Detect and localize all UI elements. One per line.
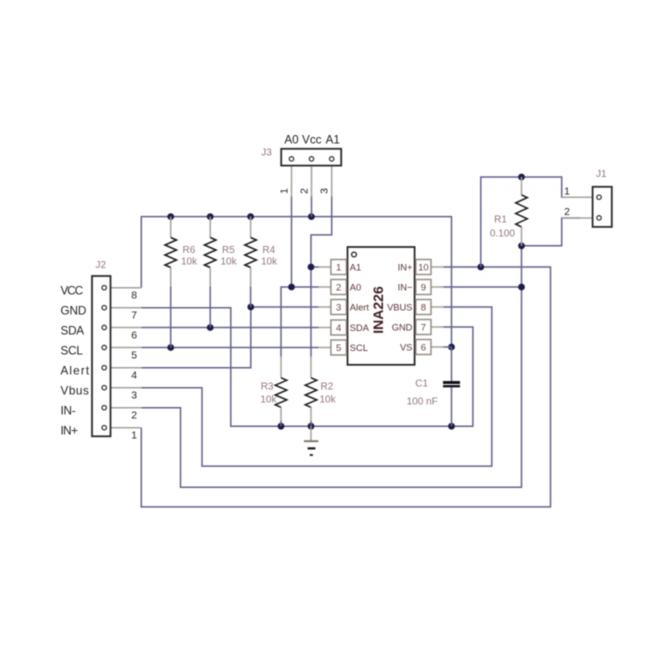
junction R1 bottom bbox=[518, 242, 525, 249]
svg-text:10k: 10k bbox=[261, 257, 278, 268]
pin numbers 10-6 bbox=[418, 262, 429, 353]
junction GND/R2/ground symbol bbox=[308, 423, 315, 430]
op-amp U1 pin1 indicator circle bbox=[352, 252, 357, 257]
ground bbox=[304, 426, 318, 455]
wire IN- net from IC pin9 bbox=[444, 286, 522, 288]
label J2 signal names bbox=[61, 284, 90, 437]
svg-text:7: 7 bbox=[421, 322, 426, 333]
wire R4 bottom to Alert bbox=[250, 286, 252, 307]
connector J3 body bbox=[281, 149, 341, 166]
svg-text:10k: 10k bbox=[260, 395, 277, 406]
svg-text:A1: A1 bbox=[326, 133, 340, 146]
wire VS pin6 to VCC bbox=[444, 346, 452, 348]
svg-text:Alert: Alert bbox=[61, 364, 90, 377]
resistor R4 bbox=[245, 217, 257, 287]
svg-text:VS: VS bbox=[400, 343, 412, 353]
junction VCC/R5 bbox=[207, 213, 214, 220]
svg-text:2: 2 bbox=[564, 207, 570, 218]
wire Alert to IC pin3 bbox=[251, 306, 319, 308]
svg-text:0.100: 0.100 bbox=[490, 229, 515, 240]
junction GND/C1 bbox=[448, 423, 455, 430]
svg-text:SCL: SCL bbox=[61, 344, 84, 357]
svg-text:A0: A0 bbox=[284, 133, 299, 146]
svg-text:2: 2 bbox=[131, 411, 137, 422]
svg-text:IN-: IN- bbox=[61, 404, 76, 417]
svg-text:R1: R1 bbox=[494, 215, 507, 226]
connector J3 pin circles bbox=[289, 157, 334, 161]
svg-text:5: 5 bbox=[336, 343, 341, 354]
svg-text:5: 5 bbox=[131, 351, 137, 362]
svg-text:VCC: VCC bbox=[61, 284, 84, 297]
wire R5 bottom to SDA bbox=[209, 286, 211, 327]
svg-text:SDA: SDA bbox=[61, 324, 85, 337]
svg-text:3: 3 bbox=[131, 391, 137, 402]
svg-text:7: 7 bbox=[131, 311, 137, 322]
wire IN+ net from IC pin10 bbox=[141, 267, 550, 507]
svg-text:R4: R4 bbox=[262, 245, 275, 256]
svg-text:IN−: IN− bbox=[398, 283, 413, 293]
wire C1 bottom lead bbox=[451, 388, 453, 427]
svg-text:1: 1 bbox=[564, 186, 570, 197]
svg-text:J3: J3 bbox=[261, 148, 272, 159]
svg-text:SCL: SCL bbox=[350, 343, 368, 353]
resistor R6 bbox=[165, 217, 177, 287]
wire A1 to IC pin1 bbox=[311, 266, 319, 268]
wire A1 from J3 pin3 bbox=[311, 197, 332, 268]
junction IN+/R1 branch bbox=[477, 264, 484, 271]
svg-text:1: 1 bbox=[280, 188, 291, 194]
wire R2 bottom to GND rail bbox=[310, 421, 312, 426]
svg-text:10k: 10k bbox=[181, 257, 198, 268]
svg-text:6: 6 bbox=[131, 331, 137, 342]
svg-text:GND: GND bbox=[392, 323, 413, 333]
connector J1 pin circles bbox=[597, 195, 601, 220]
svg-text:1: 1 bbox=[336, 262, 341, 273]
connector J2 body bbox=[92, 276, 111, 436]
svg-text:J2: J2 bbox=[96, 260, 107, 271]
connector J2 pin stubs bbox=[111, 288, 142, 428]
svg-text:100 nF: 100 nF bbox=[407, 396, 438, 407]
junction SDA/R5 bbox=[207, 324, 214, 331]
svg-text:2: 2 bbox=[300, 188, 311, 194]
wire VBUS net from IC pin8 bbox=[141, 307, 492, 466]
wire A0 to IC pin2 bbox=[292, 286, 319, 288]
svg-text:Vbus: Vbus bbox=[61, 384, 89, 397]
wire GND from J2 pin7 bbox=[141, 308, 473, 427]
connector J1 pin stubs bbox=[562, 197, 593, 218]
svg-text:INA226: INA226 bbox=[370, 286, 386, 334]
pin numbers 1-5 bbox=[336, 262, 341, 354]
svg-text:8: 8 bbox=[421, 302, 426, 313]
connector J1 body bbox=[593, 187, 612, 227]
junction A0 node bbox=[288, 284, 295, 291]
wire R1 bottom to J1 pin2 bbox=[522, 218, 581, 246]
junction Alert/R4 bbox=[247, 304, 254, 311]
svg-text:4: 4 bbox=[336, 323, 341, 334]
svg-text:10k: 10k bbox=[320, 395, 337, 406]
wire R6 bottom to SCL bbox=[170, 286, 172, 347]
junction GND/R3 bbox=[278, 423, 285, 430]
op-amp U1 left pin boxes bbox=[331, 260, 347, 356]
wire IN+ branch up to R1 top bbox=[481, 177, 522, 267]
svg-text:R5: R5 bbox=[222, 245, 235, 256]
connector J3 pin stubs bbox=[292, 166, 332, 197]
svg-text:9: 9 bbox=[421, 282, 426, 293]
op-amp U1 INA226 body bbox=[348, 247, 415, 365]
svg-text:2: 2 bbox=[336, 282, 341, 293]
svg-text:IN+: IN+ bbox=[61, 424, 79, 437]
wire VCC bus horizontal bbox=[141, 217, 451, 347]
svg-text:IN+: IN+ bbox=[398, 263, 413, 273]
wire J3 pin2 down to bus bbox=[311, 197, 313, 217]
junction VCC/R6 bbox=[167, 213, 174, 220]
svg-text:SDA: SDA bbox=[350, 323, 370, 333]
svg-text:A1: A1 bbox=[350, 263, 361, 273]
svg-text:8: 8 bbox=[131, 291, 137, 302]
svg-text:Alert: Alert bbox=[350, 303, 370, 313]
svg-text:VBUS: VBUS bbox=[387, 303, 412, 313]
wire A1 down to R2 bbox=[310, 267, 312, 357]
junction VCC/VS pin6 bbox=[448, 344, 455, 351]
resistor R5 bbox=[204, 217, 216, 287]
resistor R2 bbox=[305, 357, 317, 422]
svg-text:GND: GND bbox=[61, 304, 87, 317]
wire Alert from J2 pin4 bbox=[141, 307, 251, 368]
wire R1 bottom down to IN- bbox=[141, 246, 521, 487]
svg-text:J1: J1 bbox=[596, 169, 607, 180]
svg-text:4: 4 bbox=[131, 371, 137, 382]
svg-text:R6: R6 bbox=[183, 245, 196, 256]
junction SCL/R6 bbox=[167, 344, 174, 351]
wire SCL row bbox=[141, 347, 318, 349]
resistor R3 bbox=[275, 357, 287, 422]
resistor R1 bbox=[516, 177, 528, 246]
wire R3 bottom to GND rail bbox=[280, 421, 282, 426]
op-amp U1 right pin boxes bbox=[416, 260, 431, 355]
junction IN-/R1 bbox=[518, 284, 525, 291]
junction VCC/R4 bbox=[247, 213, 254, 220]
junction VCC/J3 pin2 bbox=[308, 213, 315, 220]
pin labels IN+ IN- VBUS GND VS bbox=[387, 263, 413, 353]
capacitor C1 bbox=[443, 383, 460, 387]
svg-text:R3: R3 bbox=[261, 382, 274, 393]
junction A1 node bbox=[308, 264, 315, 271]
label J3 signal names A0 Vcc A1 bbox=[284, 133, 340, 146]
svg-text:C1: C1 bbox=[415, 379, 428, 390]
svg-text:1: 1 bbox=[131, 431, 137, 442]
op-amp U1 INA226 pin stubs bbox=[319, 267, 444, 348]
svg-text:3: 3 bbox=[320, 188, 331, 194]
wire SDA row bbox=[141, 327, 318, 329]
svg-text:A0: A0 bbox=[350, 283, 361, 293]
svg-text:3: 3 bbox=[336, 302, 341, 313]
svg-text:R2: R2 bbox=[321, 382, 334, 393]
junction R1 top bbox=[518, 174, 525, 181]
pin labels A1 A0 Alert SDA SCL bbox=[350, 263, 370, 354]
wire A0 jog to R3 bbox=[281, 287, 292, 357]
svg-text:10k: 10k bbox=[221, 257, 238, 268]
svg-text:10: 10 bbox=[418, 262, 429, 273]
wire C1 top lead bbox=[451, 347, 453, 381]
svg-text:Vcc: Vcc bbox=[302, 133, 322, 146]
wire A0 from J3 pin1 bbox=[291, 197, 293, 288]
svg-text:6: 6 bbox=[421, 342, 426, 353]
wire R1 top to J1 pin1 bbox=[522, 177, 581, 197]
connector J2 pin circles bbox=[102, 286, 106, 430]
label J2 pin numbers bbox=[131, 291, 137, 442]
